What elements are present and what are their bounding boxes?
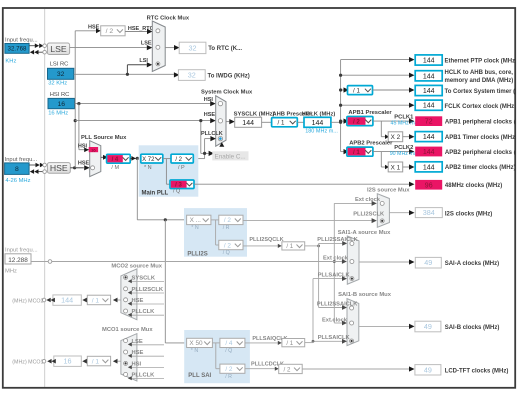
svg-text:PLL Source Mux: PLL Source Mux <box>81 135 127 141</box>
svg-text:X ...: X ... <box>190 217 202 224</box>
svg-text:HSI: HSI <box>204 97 214 103</box>
svg-text:SAI-B clocks (MHz): SAI-B clocks (MHz) <box>445 325 500 331</box>
svg-text:32: 32 <box>57 71 65 78</box>
svg-text:/ 2: / 2 <box>106 28 114 35</box>
svg-text:(MHz) MCO1: (MHz) MCO1 <box>12 360 43 366</box>
svg-text:I2S source Mux: I2S source Mux <box>367 187 410 193</box>
svg-text:180 MHz m...: 180 MHz m... <box>305 128 338 134</box>
svg-text:49: 49 <box>424 322 432 331</box>
svg-text:APB1 Prescaler: APB1 Prescaler <box>348 110 392 116</box>
svg-text:/ 1: / 1 <box>92 297 100 304</box>
svg-text:SAI1-A source Mux: SAI1-A source Mux <box>338 230 391 236</box>
svg-text:48MHz clocks (MHz): 48MHz clocks (MHz) <box>445 183 502 189</box>
svg-text:PLLCLK: PLLCLK <box>132 309 156 315</box>
svg-text:16: 16 <box>57 101 65 108</box>
svg-text:/ R: / R <box>225 374 232 380</box>
svg-text:/ R: / R <box>223 225 230 231</box>
svg-text:144: 144 <box>61 296 73 305</box>
svg-text:32: 32 <box>189 43 197 52</box>
svg-text:HSE: HSE <box>78 160 90 166</box>
svg-text:LSE: LSE <box>50 44 67 54</box>
svg-text:/ 4: / 4 <box>112 157 119 163</box>
svg-text:/ 1: / 1 <box>286 243 293 250</box>
svg-text:/ 4: / 4 <box>225 340 233 347</box>
svg-text:Input frequ...: Input frequ... <box>5 157 38 163</box>
svg-text:32: 32 <box>188 71 196 80</box>
svg-text:System Clock Mux: System Clock Mux <box>201 89 253 95</box>
svg-text:* N: * N <box>191 225 199 231</box>
svg-text:384: 384 <box>423 208 435 217</box>
svg-text:To IWDG (KHz): To IWDG (KHz) <box>208 74 250 80</box>
svg-text:144: 144 <box>423 73 435 80</box>
svg-text:49: 49 <box>424 258 432 267</box>
svg-text:HSI: HSI <box>132 362 142 368</box>
svg-text:72: 72 <box>425 119 433 126</box>
svg-text:APB1 Timer clocks (MHz): APB1 Timer clocks (MHz) <box>445 135 517 141</box>
svg-text:/ 2: / 2 <box>353 118 360 125</box>
svg-text:To Cortex System timer (: To Cortex System timer ( <box>445 89 516 95</box>
svg-text:/ 1: / 1 <box>353 149 360 156</box>
svg-text:Main PLL: Main PLL <box>142 190 169 196</box>
svg-text:/ 1: / 1 <box>286 340 293 347</box>
svg-text:144: 144 <box>312 120 324 127</box>
svg-text:12.288: 12.288 <box>8 257 28 264</box>
svg-text:/ 1: / 1 <box>278 120 285 127</box>
svg-text:32.768: 32.768 <box>8 46 27 53</box>
svg-text:X 1: X 1 <box>391 164 401 171</box>
svg-text:* N: * N <box>144 165 152 171</box>
svg-text:/ P: / P <box>178 165 185 171</box>
svg-text:/ M: / M <box>111 165 119 171</box>
svg-text:/ Q: / Q <box>225 348 232 354</box>
svg-text:8: 8 <box>15 166 19 173</box>
svg-text:/ 2: / 2 <box>225 366 233 373</box>
svg-text:/ 1: / 1 <box>353 87 360 94</box>
svg-text:/ 3: / 3 <box>175 182 182 188</box>
svg-text:APB2 Prescaler: APB2 Prescaler <box>349 141 393 147</box>
svg-text:MCO1 source Mux: MCO1 source Mux <box>102 327 153 333</box>
svg-text:16 MHz: 16 MHz <box>48 111 68 117</box>
svg-text:LSE: LSE <box>132 339 143 345</box>
svg-text:APB2 timer clocks (MHz): APB2 timer clocks (MHz) <box>445 165 516 171</box>
svg-text:144: 144 <box>423 164 435 171</box>
svg-text:MHz: MHz <box>5 269 17 275</box>
svg-text:144: 144 <box>423 58 435 65</box>
svg-text:KHz: KHz <box>5 59 16 65</box>
svg-text:PLLI2SQCLK: PLLI2SQCLK <box>249 237 283 243</box>
svg-text:SAI-A clocks (MHz): SAI-A clocks (MHz) <box>445 261 499 267</box>
svg-text:LCD-TFT clocks (MHz): LCD-TFT clocks (MHz) <box>445 368 509 374</box>
svg-text:/ 2: / 2 <box>284 366 291 373</box>
svg-text:144: 144 <box>423 149 435 156</box>
svg-text:PLLSAICLK: PLLSAICLK <box>318 272 351 278</box>
svg-text:SAI1-B source Mux: SAI1-B source Mux <box>338 292 392 298</box>
svg-text:Ethernet PTP clock (MHz): Ethernet PTP clock (MHz) <box>445 59 518 65</box>
svg-text:I2S clocks (MHz): I2S clocks (MHz) <box>445 211 492 217</box>
svg-text:* N: * N <box>191 348 199 354</box>
svg-text:APB1 peripheral clocks (: APB1 peripheral clocks ( <box>445 120 516 126</box>
svg-text:RTC Clock Mux: RTC Clock Mux <box>147 16 190 22</box>
svg-text:APB2 peripheral clocks (: APB2 peripheral clocks ( <box>445 150 516 156</box>
svg-text:16: 16 <box>64 357 72 366</box>
svg-text:/ Q: / Q <box>223 250 230 256</box>
svg-text:144: 144 <box>423 134 435 141</box>
svg-text:Input frequ...: Input frequ... <box>5 247 38 253</box>
svg-text:HSE: HSE <box>204 112 216 118</box>
svg-text:SYSCLK: SYSCLK <box>132 276 156 282</box>
svg-text:/ 2: / 2 <box>224 242 232 249</box>
svg-text:Ext clock: Ext clock <box>355 197 381 203</box>
svg-text:PLL SAI: PLL SAI <box>188 373 211 379</box>
svg-text:/ Q: / Q <box>173 189 181 195</box>
svg-text:HSE: HSE <box>132 298 144 304</box>
svg-text:LSI RC: LSI RC <box>50 62 69 68</box>
svg-text:/ 1: / 1 <box>92 358 100 365</box>
svg-text:X 72: X 72 <box>142 157 155 163</box>
svg-text:memory and DMA (MHz): memory and DMA (MHz) <box>445 78 514 84</box>
svg-text:X 50: X 50 <box>189 340 203 347</box>
svg-text:FCLK Cortex clock (MHz: FCLK Cortex clock (MHz <box>445 104 515 110</box>
svg-text:4-26 MHz: 4-26 MHz <box>5 178 30 184</box>
svg-text:PLLSAICLK: PLLSAICLK <box>318 335 351 341</box>
svg-text:Enable C...: Enable C... <box>215 153 246 160</box>
svg-text:32 KHz: 32 KHz <box>48 80 67 86</box>
svg-text:HSE: HSE <box>88 24 100 30</box>
svg-text:144: 144 <box>242 120 254 127</box>
svg-text:HSI RC: HSI RC <box>50 92 70 98</box>
svg-text:PLLI2S: PLLI2S <box>187 252 207 258</box>
svg-text:144: 144 <box>423 88 435 95</box>
svg-text:Ext clock: Ext clock <box>323 255 349 261</box>
svg-text:SYSCLK (MHz): SYSCLK (MHz) <box>234 111 275 117</box>
svg-text:96: 96 <box>425 182 433 189</box>
svg-text:LSE: LSE <box>141 41 152 47</box>
svg-text:/ 2: / 2 <box>224 217 232 224</box>
svg-text:Input frequ...: Input frequ... <box>5 37 38 43</box>
svg-text:HSE: HSE <box>50 163 68 173</box>
svg-text:To RTC (K...: To RTC (K... <box>208 46 242 52</box>
svg-text:144: 144 <box>423 103 435 110</box>
svg-text:49: 49 <box>424 365 432 374</box>
svg-text:/ 2: / 2 <box>175 157 182 163</box>
svg-text:LSI: LSI <box>139 58 148 64</box>
svg-text:PLLI2SCLK: PLLI2SCLK <box>353 212 385 218</box>
svg-text:HCLK to AHB bus, core,: HCLK to AHB bus, core, <box>445 70 514 76</box>
svg-text:16: 16 <box>91 147 96 152</box>
svg-text:HSE: HSE <box>132 350 144 356</box>
svg-text:PLLI2SCLK: PLLI2SCLK <box>132 287 164 293</box>
svg-text:PLLCLK: PLLCLK <box>132 373 156 379</box>
svg-text:(MHz) MCO2: (MHz) MCO2 <box>12 298 43 304</box>
